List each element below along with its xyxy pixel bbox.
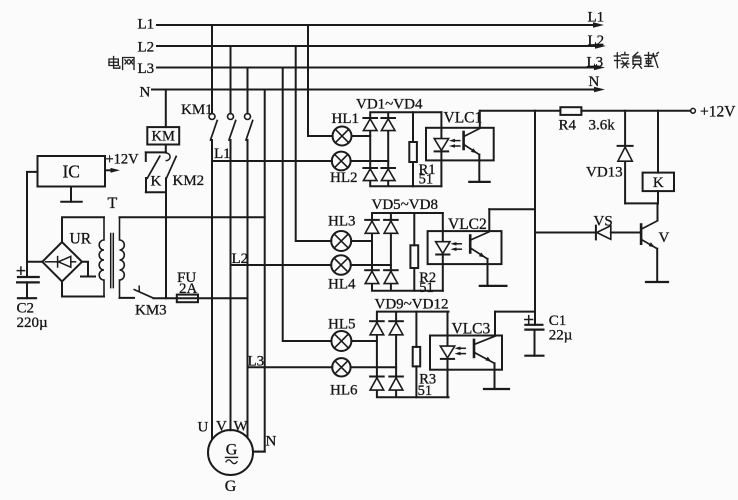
svg-text:KM2: KM2 [173,173,205,189]
svg-text:W: W [234,418,249,434]
VLC2 collector rail to bus [489,208,535,210]
svg-text:KM: KM [152,129,175,145]
lamp HL2 [332,152,388,171]
contactor KM1 pole a [209,114,217,141]
svg-text:HL5: HL5 [328,317,356,333]
svg-text:IC: IC [62,162,80,182]
svg-text:L3: L3 [248,354,265,370]
svg-text:L1: L1 [588,10,605,26]
diode VD3 [363,168,377,181]
svg-text:R4: R4 [559,118,577,134]
svg-text:U: U [198,419,209,435]
wire L3 bus [157,67,597,69]
svg-text:KM1: KM1 [181,102,213,118]
diode VD6 [384,220,398,233]
optocoupler VLC3 box [430,336,502,370]
wire DC node to UR left vertex [27,261,42,263]
diode VD9 [370,321,384,335]
svg-text:HL4: HL4 [328,277,356,293]
VLC3 collector rail to bus [495,311,535,313]
diode VD2 [381,118,395,131]
capacitor C1 [525,316,544,356]
diode VD7 [365,270,379,283]
svg-text:+12V: +12V [700,104,736,121]
wire L1 dropper to HL1 [308,25,333,136]
transformer T core [111,234,114,288]
svg-text:VLC3: VLC3 [452,321,491,338]
resistor R2 [410,213,418,291]
bridge 3 rails and legs [377,312,449,398]
svg-text:VLC2: VLC2 [448,216,487,233]
contactor KM1 pole c [245,114,253,141]
wire phase U column to generator [211,140,213,439]
svg-text:22µ: 22µ [549,328,573,344]
svg-text:KM3: KM3 [135,303,167,319]
CJK label dian (electric) of 电网 [109,57,120,69]
resistor R1 [409,112,417,186]
relay coil KM box [147,127,179,144]
svg-text:K: K [151,174,162,190]
transformer T secondary winding [99,217,104,296]
G underline [226,456,238,458]
wire contacts down to fuse line [165,192,167,298]
wire phase W column to generator [247,140,249,437]
VLC2 LED [436,213,450,291]
ground at UR right vertex [81,262,95,277]
contactor KM1 pole b [228,114,236,141]
wire L1 to KM1 contact a [211,25,213,114]
svg-text:L2: L2 [232,251,249,267]
wire KM coil to contacts [165,145,167,153]
contact K (left branch) [146,152,160,192]
VLC2 phototransistor [470,209,489,286]
svg-text:L1: L1 [138,17,155,33]
diode VD4 [381,168,395,181]
VLC1 LED [434,112,448,186]
lamp HL1 [333,127,371,146]
capacitor C2 [17,262,39,298]
wire L3 to KM1 contact c [247,68,249,114]
svg-text:HL1: HL1 [332,111,360,127]
svg-text:G: G [225,478,237,495]
wire primary bottom to KM3 [120,297,135,299]
svg-text:L2: L2 [588,33,605,49]
svg-text:2A: 2A [179,281,198,297]
optocoupler VLC2 box [428,231,502,264]
G tilde [226,460,237,464]
VLC1 light arrows [449,139,460,148]
svg-text:+12V: +12V [106,152,140,168]
VLC3 phototransistor [474,312,495,389]
wire N dropper to generator [253,90,265,452]
svg-text:220µ: 220µ [17,315,49,331]
bridge 2 rails and legs [372,213,443,291]
svg-text:G: G [226,442,238,459]
svg-text:51: 51 [418,383,433,399]
svg-text:L2: L2 [138,40,155,56]
wire L2 bus [157,45,598,47]
svg-text:T: T [108,195,118,212]
svg-text:UR: UR [70,231,92,248]
VLC3 light arrows [455,347,466,356]
diode VD5 [365,220,379,233]
lamp HL5 [331,331,377,351]
IC +12V arrowhead [111,168,121,173]
lamp HL6 [332,358,396,376]
contact KM3 [134,286,153,298]
thyristor VS [535,226,640,240]
svg-text:VD9~VD12: VD9~VD12 [375,297,449,313]
wire L2 gen branch to HL4 [231,264,332,266]
transistor V [641,203,657,282]
diode VD13 [618,111,633,204]
diode inside UR [46,256,76,267]
generator G circle [208,430,253,475]
bridge rectifier UR diamond [42,242,82,282]
svg-text:VD1~VD4: VD1~VD4 [356,97,423,113]
CJK label wang (grid) of 电网 [123,58,134,70]
svg-text:51: 51 [419,172,434,188]
wire VD13 to K node [625,202,658,204]
IC regulator box U1 [38,156,106,187]
svg-text:L3: L3 [138,61,155,77]
CJK label jie (connect) of 接负载 [614,52,629,68]
svg-text:K: K [653,175,664,191]
wire +12V rail left of R4 [480,110,561,112]
VLC3 LED [440,312,454,398]
wire UR top vertex to transformer secondary [62,217,104,242]
ground under IC [61,187,81,202]
ground under VLC1 [469,181,489,183]
terminal +12V circle [691,108,696,113]
fuse FU box [177,295,198,303]
bridge 1 rails and legs [370,112,441,186]
CJK label zai (carry) of 接负载 [645,52,659,67]
diode VD11 [370,377,384,391]
wire N bus [152,89,597,91]
svg-text:51: 51 [419,280,434,296]
relay coil K box [643,111,674,204]
resistor R4 [560,107,581,115]
wire L2 dropper to HL3 [296,46,332,241]
wire L2 to KM1 contact b [230,46,232,114]
wire N bus arrowhead [594,87,605,92]
svg-text:VS: VS [594,214,613,230]
svg-text:L1: L1 [214,146,231,162]
wire IC input from rectifier [27,172,38,262]
transformer T primary winding [120,217,125,298]
VLC2 light arrows [451,242,462,251]
wire collector bus vertical [534,111,536,325]
diode VD12 [389,377,403,391]
wire L2 bus arrowhead [595,43,606,48]
wire primary top to N column [120,216,265,218]
wire generator N stub [253,451,265,453]
ground under VLC3 [484,388,509,390]
diode VD10 [389,321,403,335]
CJK label fu (load) of 接负载 [633,52,642,68]
svg-text:L3: L3 [587,55,604,71]
wire L1 bus arrowhead [593,22,604,27]
svg-text:V: V [216,418,227,434]
wire L3 bus arrowhead [594,65,605,70]
svg-text:N: N [266,434,277,450]
svg-text:3.6k: 3.6k [589,118,616,134]
wire UR bottom vertex to secondary bottom [62,282,104,297]
VLC1 phototransistor [464,111,480,182]
optocoupler VLC1 box [426,128,494,161]
node parallel contacts bottom bar [146,191,166,193]
wire L3 dropper to HL5 [283,68,332,342]
svg-text:V: V [659,230,670,246]
svg-text:VLC1: VLC1 [444,110,483,127]
svg-text:VD13: VD13 [586,165,623,181]
svg-text:HL6: HL6 [330,383,358,399]
ground under transistor V [646,281,668,283]
diode VD1 [363,118,377,131]
contact KM2 (right branch) [166,153,176,192]
wire phase V column to generator [230,140,232,430]
wire KM3 to fuse and W column [154,297,248,299]
wire L3 gen branch to HL6 [248,366,333,368]
svg-text:HL3: HL3 [328,213,356,229]
diode VD8 [384,270,398,283]
ground under VLC2 [480,285,507,287]
resistor R3 [413,312,421,398]
node parallel contacts top bar [146,151,166,153]
wire +12V rail right of R4 [581,110,690,112]
svg-text:VD5~VD8: VD5~VD8 [372,197,438,213]
lamp HL4 [331,255,391,275]
lamp HL3 [331,231,372,251]
svg-text:HL2: HL2 [330,170,358,186]
wire L1 bus [157,24,596,26]
wire IC +12V output arrow [105,169,114,171]
wire N to KM coil [165,90,167,128]
svg-text:N: N [589,74,600,90]
wire L1 gen branch to HL2 [212,160,332,162]
svg-text:N: N [140,85,151,101]
